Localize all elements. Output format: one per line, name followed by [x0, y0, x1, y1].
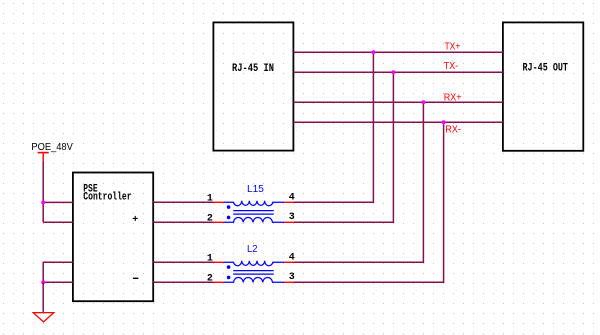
wire POE down segment: [42, 202, 44, 222]
svg-text:3: 3: [289, 212, 295, 223]
svg-text:RJ-45 IN: RJ-45 IN: [232, 63, 274, 75]
svg-text:L15: L15: [247, 184, 264, 195]
transformer L2: [207, 244, 295, 284]
junction RX-: [442, 120, 446, 124]
wire to ground: [42, 282, 44, 312]
svg-text:L2: L2: [247, 244, 258, 255]
svg-text:RX-: RX-: [445, 124, 461, 135]
wire POE to PSE upper pin 2: [43, 221, 73, 223]
wire PSE pin to L2 pin 2: [153, 281, 213, 283]
svg-text:2: 2: [207, 214, 213, 225]
wire TX- vertical to L15 pin 3: [294, 72, 393, 222]
svg-text:Controller: Controller: [83, 192, 131, 204]
wire PSE lower pin 2 to left: [43, 281, 73, 283]
wire RX+ vertical to L2 pin 4: [294, 102, 423, 262]
wire POE_48V vertical: [42, 162, 44, 202]
wire PSE pin to L2 pin 1: [153, 261, 213, 263]
svg-text:+: +: [132, 215, 138, 226]
wire PSE lower pin 1 to left: [43, 262, 73, 282]
wire TX+ horizontal: [293, 51, 503, 53]
svg-text:2: 2: [207, 273, 213, 284]
wire RX- horizontal: [293, 121, 503, 123]
svg-text:TX+: TX+: [445, 42, 461, 53]
wire RX+ horizontal: [293, 101, 503, 103]
wire PSE pin to L15 pin 2: [153, 221, 213, 223]
pin label -: [133, 278, 138, 279]
svg-text:1: 1: [207, 194, 213, 205]
wire RX- vertical to L2 pin 3: [294, 122, 444, 282]
svg-text:3: 3: [289, 272, 295, 283]
svg-text:RX+: RX+: [444, 92, 462, 103]
transformer L15: [207, 184, 295, 225]
junction TX+: [371, 50, 375, 54]
junction TX-: [391, 70, 395, 74]
power symbol POE_48V: [38, 153, 49, 163]
block RJ-45 IN: [213, 22, 293, 150]
junction POE node: [41, 200, 45, 204]
svg-text:TX-: TX-: [444, 61, 458, 72]
wire PSE pin to L15 pin 1: [153, 201, 213, 203]
ground symbol: [33, 313, 54, 322]
block RJ-45 OUT: [503, 22, 583, 150]
junction ground node: [41, 280, 45, 284]
svg-text:4: 4: [289, 193, 295, 204]
wire TX- horizontal: [293, 71, 503, 73]
svg-text:RJ-45 OUT: RJ-45 OUT: [523, 63, 569, 75]
wire TX+ vertical to L15 pin 4: [294, 52, 373, 202]
block PSE Controller U1: [73, 173, 153, 302]
wire POE to PSE upper pin 1: [43, 201, 73, 203]
svg-text:POE_48V: POE_48V: [31, 142, 73, 153]
svg-text:1: 1: [207, 254, 213, 265]
svg-text:4: 4: [289, 253, 295, 264]
junction RX+: [421, 100, 425, 104]
